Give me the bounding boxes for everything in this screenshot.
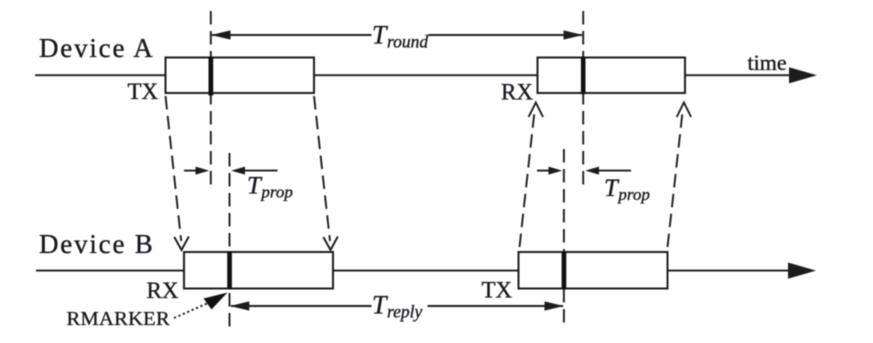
RMARKER bar A RX — [581, 57, 586, 94]
arrow T_prop left pointing left — [244, 170, 278, 172]
arrow T_prop left pointing right — [184, 170, 198, 172]
dashed propagation line B-to-A right — [668, 114, 683, 247]
dashed propagation line B-to-A left — [520, 114, 535, 247]
dashed vertical line TX RMARKER time on A (x=211) — [210, 11, 212, 185]
arrow T_round left segment — [212, 34, 372, 36]
svg-text:Device A: Device A — [39, 33, 155, 63]
arrow T_prop right pointing right — [537, 170, 551, 172]
arrowhead up at A RX left corner — [529, 103, 543, 118]
arrowhead down at B RX left corner — [174, 237, 189, 251]
arrow T_reply left segment — [231, 305, 372, 307]
dashed vertical line RX RMARKER time on B (x=229.5) — [229, 153, 231, 327]
svg-text:RX: RX — [147, 278, 179, 303]
arrowhead time axis A — [789, 67, 817, 83]
svg-text:time: time — [748, 50, 787, 75]
frame box Device A RX — [538, 58, 686, 94]
arrow T_prop right pointing left — [598, 170, 631, 172]
arrowhead T_round left — [211, 30, 231, 39]
arrowhead T_reply left — [230, 301, 250, 310]
frame box Device B RX — [184, 252, 333, 289]
arrow T_reply right segment — [428, 305, 564, 307]
dashed vertical line RX RMARKER time on A (x=583) — [582, 11, 584, 190]
frame box Device B TX — [519, 252, 668, 289]
arrowhead T_reply right — [545, 301, 565, 310]
RMARKER bar B TX — [562, 251, 567, 289]
dashed propagation line A-to-B left — [166, 96, 182, 241]
dashed vertical line TX RMARKER time on B (x=564) — [563, 149, 565, 327]
wire timeline Device A — [35, 74, 790, 76]
arrowhead up at A RX right corner — [677, 103, 691, 118]
RMARKER bar B RX — [227, 251, 232, 289]
arrowhead down at B RX right corner — [323, 237, 338, 251]
svg-text:RMARKER: RMARKER — [67, 308, 171, 330]
arrowhead T_round right — [564, 30, 584, 39]
dotted leader RMARKER — [174, 304, 207, 319]
svg-text:TX: TX — [482, 278, 513, 303]
svg-text:TX: TX — [128, 79, 159, 104]
RMARKER bar A TX — [209, 57, 214, 96]
dashed propagation line A-to-B right — [314, 96, 330, 241]
arrowhead time axis B — [788, 263, 816, 279]
svg-text:RX: RX — [501, 80, 533, 105]
svg-text:Device B: Device B — [39, 229, 155, 259]
arrowhead RMARKER — [204, 293, 228, 310]
wire timeline Device B — [36, 270, 789, 272]
frame box Device A TX — [166, 58, 315, 94]
arrow T_round right segment — [429, 34, 583, 36]
